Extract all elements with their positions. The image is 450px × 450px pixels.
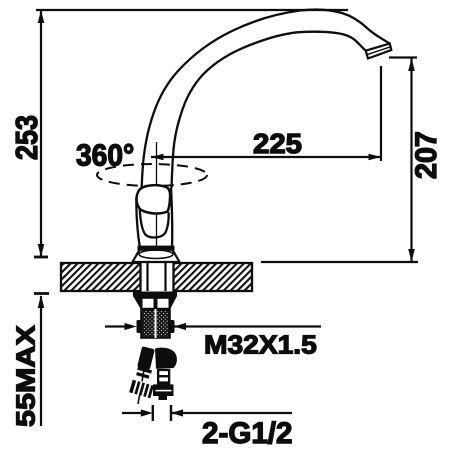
dimension 55MAX line <box>40 296 42 426</box>
arrow left M32 <box>174 323 186 330</box>
tick left G12 <box>152 405 154 421</box>
handle cup <box>140 208 169 237</box>
base flange <box>133 250 180 262</box>
M32 leader right <box>174 325 321 327</box>
arrow right M32 <box>125 323 137 330</box>
hose right ladder fitting <box>157 369 170 385</box>
deck slab left <box>61 263 141 291</box>
rotation dashed ellipse <box>97 164 207 186</box>
svg-text:253: 253 <box>11 115 45 160</box>
locknut flange bar <box>133 292 177 297</box>
extension line spout tip vertical <box>380 66 382 161</box>
hose left striped fitting <box>129 379 154 399</box>
body column left edge <box>136 197 140 248</box>
dimension 225 line <box>151 156 381 158</box>
wire top extension line (spout top datum) <box>36 9 348 11</box>
hose right nut <box>153 384 174 396</box>
arrow down 253 <box>38 244 45 257</box>
dimension 2-G1/2 left line <box>122 412 141 414</box>
body joint ring <box>138 246 175 251</box>
svg-text:M32X1.5: M32X1.5 <box>204 329 317 359</box>
arrow left G12 <box>171 409 183 416</box>
shank tab right <box>170 320 175 333</box>
centerline faucet axis <box>156 142 158 262</box>
arrow down 207 <box>408 249 415 262</box>
hose left axis line <box>138 350 148 404</box>
body column right edge <box>171 188 172 248</box>
hose right elbow <box>155 348 177 369</box>
extension line tip to 207 <box>389 56 417 58</box>
spout tip cap <box>366 44 392 59</box>
tick 253 bottom <box>34 256 48 259</box>
extension line deck to 207 <box>261 261 418 263</box>
svg-text:2-G1/2: 2-G1/2 <box>202 417 292 450</box>
svg-text:225: 225 <box>253 129 302 160</box>
arrow left 225 <box>151 154 164 161</box>
hose right tail <box>159 396 168 400</box>
handle knob outline <box>136 185 170 213</box>
dimension 2-G1/2 right line <box>171 412 292 414</box>
hose left upper blob <box>137 346 155 370</box>
tick right G12 <box>170 405 172 421</box>
deck slab right <box>174 263 253 291</box>
shank tube through deck <box>146 263 148 291</box>
dimension 207 vertical line <box>410 58 412 262</box>
arrow up 253 <box>38 10 45 23</box>
shank tab left <box>137 320 142 333</box>
arrow up 55MAX <box>38 295 45 308</box>
arrow right G12 <box>141 409 153 416</box>
arrow up 207 <box>408 58 415 71</box>
base flange ellipse <box>139 250 173 258</box>
svg-text:55MAX: 55MAX <box>12 325 41 427</box>
spout outer curve <box>142 10 390 192</box>
svg-text:207: 207 <box>411 131 443 179</box>
spout inner curve <box>172 32 366 188</box>
svg-text:360°: 360° <box>76 140 134 173</box>
arrow right 225 <box>369 154 382 161</box>
dimension 253 vertical line <box>40 10 42 257</box>
mounting bracket with windows <box>133 296 177 310</box>
threaded shank <box>142 310 170 338</box>
spout tip cap inner line <box>367 47 390 55</box>
tick 55MAX top <box>34 292 49 295</box>
M32 leader left <box>105 325 127 327</box>
hose left collar bands <box>136 366 152 379</box>
